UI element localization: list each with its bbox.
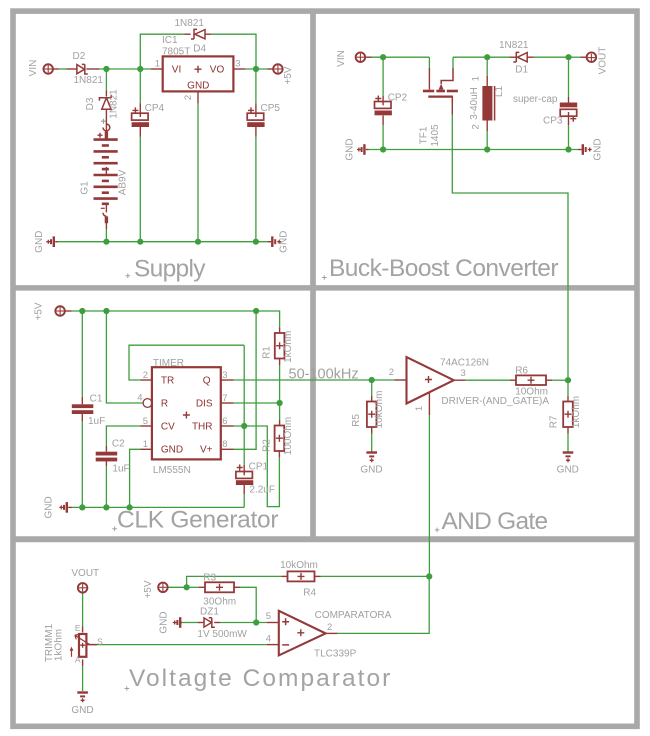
wire TR loop vertical to CP1 [243,345,245,474]
capacitor CP4 [132,107,149,127]
wire R3 right down to reference node [234,587,256,622]
svg-text:6: 6 [222,416,227,427]
title Supply [126,256,207,283]
svg-text:2: 2 [389,367,394,378]
wire CP5 branch [255,69,257,242]
diode D2 [77,64,88,74]
svg-text:Buck-Boost Converter: Buck-Boost Converter [329,255,559,282]
wire R4 to output node [315,575,430,577]
title Voltagte Comparator [125,665,391,692]
IC1 7805T voltage regulator [163,56,234,91]
capacitor CP2 [375,96,392,116]
svg-text:2: 2 [327,622,332,633]
svg-text:CP3: CP3 [543,116,563,127]
svg-text:5: 5 [266,611,271,622]
svg-text:CLK Generator: CLK Generator [117,507,279,534]
svg-text:10Ohm: 10Ohm [515,386,548,397]
diode D4 [191,29,205,39]
wire R reset pin branch [106,311,142,403]
svg-text:VIN: VIN [336,50,347,67]
svg-text:2: 2 [143,370,148,381]
pad VIN [28,60,53,77]
pad VIN buck [336,50,365,67]
pad VOUT comparator [71,568,99,593]
wire D4 bypass loop [140,34,256,69]
svg-text:CP1: CP1 [249,461,269,472]
svg-text:1V 500mW: 1V 500mW [197,629,247,640]
svg-text:R4: R4 [303,587,316,598]
svg-text:3: 3 [222,370,227,381]
wire CP1 bottom to GND rail [243,485,245,507]
wire V+ pin to rail [221,311,256,449]
title CLK Generator [112,507,278,534]
wire mosfet source down [428,57,430,89]
svg-text:7805T: 7805T [162,46,190,57]
wire mosfet gate to AND gate node [452,103,568,380]
resistor R7 [563,402,573,428]
diode D3 zener vertical [99,95,111,109]
svg-text:74AC126N: 74AC126N [440,358,489,369]
wire CP2 branch [382,57,384,149]
svg-text:THR: THR [192,421,213,432]
svg-text:1: 1 [155,59,160,70]
svg-text:VI: VI [172,65,181,76]
svg-text:R: R [161,398,168,409]
wire battery G1 to GND rail [105,223,107,242]
svg-text:C2: C2 [112,438,125,449]
svg-text:GND: GND [161,445,183,456]
svg-text:1: 1 [143,439,148,450]
svg-text:super-cap: super-cap [513,94,558,105]
svg-text:10kOhm: 10kOhm [374,391,385,429]
wire R6 to junction [546,379,568,381]
svg-text:GND: GND [345,138,356,160]
junction dots supply [103,66,259,245]
wire C2 to GND rail [105,460,107,508]
svg-text:R7: R7 [549,415,560,428]
svg-text:GND: GND [279,231,290,253]
wire D1 to VOUT pad [527,56,586,58]
battery G1 [94,119,118,224]
svg-text:5: 5 [143,416,148,427]
svg-text:1405: 1405 [430,124,441,147]
ground left clk [44,496,72,518]
svg-text:GND: GND [593,138,604,160]
svg-text:VO: VO [210,65,225,76]
svg-text:1N821: 1N821 [175,18,205,29]
svg-text:DRIVER-(AND_GATE)A: DRIVER-(AND_GATE)A [441,396,549,407]
wire TRIMM1 bottom to GND [82,660,84,692]
svg-text:VOUT: VOUT [598,47,609,75]
wire buck GND rail [369,149,578,151]
wire VIN rail segment pad to D2 [53,68,77,70]
svg-text:+5V: +5V [143,580,154,598]
svg-text:GND: GND [71,705,93,716]
svg-text:GND: GND [44,496,55,518]
svg-text:R5: R5 [351,414,362,427]
potentiometer TRIMM1 [70,634,97,657]
svg-text:10kOhm: 10kOhm [280,560,318,571]
wire THR pin to R2 loop [221,426,280,507]
svg-text:1N821: 1N821 [109,89,120,119]
svg-text:3-40uH: 3-40uH [469,87,480,120]
ground left buck [345,138,369,160]
diode D1 zener [513,52,527,62]
wire VOUT pad down to TRIMM1 [82,593,84,633]
ground R7 [557,453,579,476]
svg-text:100Ohm: 100Ohm [283,417,294,455]
svg-text:2.2uF: 2.2uF [249,484,275,495]
svg-text:GND: GND [557,464,579,475]
svg-text:R2: R2 [262,439,273,452]
svg-text:A: A [75,655,81,665]
svg-text:C1: C1 [90,394,103,405]
ground left supply [34,231,58,253]
wire junction up to R4 [187,576,288,587]
svg-text:VOUT: VOUT [71,568,99,579]
wire wiper to pin 4 [87,644,279,646]
capacitor C1 [72,404,94,414]
svg-text:Q: Q [203,375,211,386]
wire D3 to battery G1 [105,109,107,131]
svg-text:TR: TR [161,375,174,386]
svg-text:GND: GND [159,611,170,633]
svg-text:DZ1: DZ1 [200,607,219,618]
svg-text:GND: GND [360,464,382,475]
IC2 LM555N timer [143,367,221,459]
svg-text:D2: D2 [73,51,86,62]
svg-text:CP5: CP5 [261,103,281,114]
svg-text:2: 2 [183,95,194,100]
transistor TF1 p-mosfet [423,68,458,104]
wire DZ1 to pin 5 [182,622,279,624]
title AND Gate [435,508,548,535]
wire R5 branch [371,380,373,452]
wire input pin2 stub [395,379,407,381]
svg-text:AND Gate: AND Gate [442,508,549,535]
junction dots clk [79,308,283,511]
svg-text:+5V: +5V [34,302,45,320]
ground R5 [360,453,382,476]
wire CP4 branch [139,69,141,242]
capacitor CP5 [247,107,264,127]
wire +5V rail [65,311,280,333]
svg-text:1: 1 [414,406,425,411]
resistor R6 [516,375,546,385]
wire GND rail [58,241,267,243]
svg-text:+5V: +5V [283,66,294,84]
wire DIS pin to R1 [221,402,280,404]
svg-text:COMPARATORA: COMPARATORA [315,610,392,621]
wire DIS junction to R2 top [279,403,281,426]
svg-text:AB9V: AB9V [118,169,129,195]
IC3 74AC126N driver triangle [407,357,454,404]
pad +5V clk [34,302,65,320]
svg-text:CP4: CP4 [145,103,165,114]
title Buck-Boost Converter [322,255,559,282]
svg-text:LM555N: LM555N [153,465,191,476]
svg-text:CP2: CP2 [388,92,408,103]
wire L1 branch [486,57,488,149]
pad VOUT buck [587,47,609,75]
svg-text:D4: D4 [193,43,206,54]
wire D3 branch from rail [105,69,107,96]
svg-text:TIMER: TIMER [153,358,184,369]
wire Q output to AND gate [221,379,395,381]
wire +5V pad to R3 junction [168,586,205,588]
wire output pin3 to R6 [454,379,516,381]
capacitor CP3 super-cap [560,103,577,122]
inductor L1 [482,86,494,121]
wire mosfet drain rail to L1 and D1 [453,57,516,68]
svg-text:Supply: Supply [134,256,206,283]
diode DZ1 zener [204,618,215,628]
svg-text:R6: R6 [515,366,528,377]
svg-text:1kOhm: 1kOhm [571,396,582,428]
wire VIN rail to mosfet source [365,56,429,58]
svg-text:GND: GND [34,231,45,253]
svg-text:1N821: 1N821 [74,75,104,86]
ground TRIMM1 [71,693,93,716]
svg-text:CV: CV [161,421,175,432]
wire IC1 pin2 GND down [197,91,199,241]
svg-text:1N821: 1N821 [499,40,529,51]
junction dots comparator [184,573,433,625]
svg-text:1kOhm: 1kOhm [283,331,294,363]
wire CP3 branch [568,57,570,149]
svg-text:1uF: 1uF [88,416,105,427]
capacitor C2 [96,452,118,462]
svg-text:1kOhm: 1kOhm [54,629,65,661]
resistor R3 [205,582,234,592]
svg-text:IC1: IC1 [162,35,178,46]
svg-text:E: E [75,623,81,633]
svg-text:4: 4 [137,393,142,404]
wire D2 to IC1 pin1 [86,68,162,70]
svg-text:D3: D3 [85,97,96,110]
svg-text:DIS: DIS [196,398,213,409]
wire IC1 pin3 to +5V pad [233,68,273,70]
wire C1 branch [81,311,83,507]
svg-text:7: 7 [222,393,227,404]
svg-text:S: S [97,637,103,647]
svg-text:V+: V+ [200,445,213,456]
IC4 TLC339P comparator triangle [279,611,326,656]
svg-text:1: 1 [471,76,482,81]
svg-text:4: 4 [266,634,271,645]
resistor R4 [288,571,315,581]
capacitor CP1 [236,465,253,486]
wire GND pin 1 down [130,449,152,507]
ground DZ1 [159,611,183,633]
wire comparator output pin 2 [326,576,430,633]
wire pin1 enable down [428,393,430,577]
svg-text:8: 8 [222,439,227,450]
wire R1 bottom to DIS junction [279,359,281,404]
resistor R2 [275,426,285,452]
junction dots buck [380,54,572,152]
svg-text:Voltagte Comparator: Voltagte Comparator [129,665,390,692]
wire CV pin to C2 [106,426,151,452]
svg-text:1uF: 1uF [112,463,129,474]
svg-text:D1: D1 [515,64,528,75]
wire R7 branch [567,380,569,451]
wire TR loop [129,345,244,380]
svg-text:3: 3 [235,59,240,70]
svg-text:R1: R1 [261,346,272,359]
wire GND rail clk [72,506,244,508]
pad +5V comparator [143,580,168,598]
svg-text:TLC339P: TLC339P [314,649,357,660]
svg-text:L1: L1 [494,86,505,98]
svg-text:R3: R3 [203,573,216,584]
resistor R1 [275,333,285,359]
svg-text:TF1: TF1 [418,126,429,144]
pad +5V [273,64,294,84]
resistor R5 [367,402,377,428]
ground right supply [267,231,289,253]
svg-text:3: 3 [461,368,466,379]
svg-text:VIN: VIN [28,60,39,77]
svg-text:50-100kHz: 50-100kHz [289,367,359,383]
ground right buck [578,138,604,160]
svg-text:2: 2 [471,124,482,129]
svg-text:GND: GND [187,81,209,92]
svg-text:G1: G1 [80,181,91,195]
junction dots and gate [369,377,572,383]
